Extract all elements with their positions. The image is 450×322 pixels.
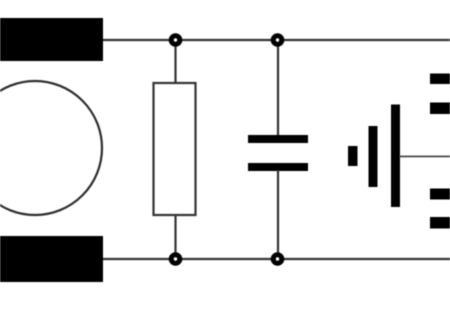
node D (bottom-right junction) <box>271 252 285 266</box>
node C (bottom-left junction) <box>169 252 183 266</box>
wire earpiece lead <box>399 155 450 157</box>
winding bar W4 (clipped at right edge) <box>430 217 450 229</box>
wire capacitor bottom lead <box>277 170 279 259</box>
resistor R1 <box>154 83 196 215</box>
earpiece LS1 middle bar <box>369 126 378 187</box>
wire bottom rail <box>103 258 450 260</box>
terminal block TB1 (antenna, top-left) <box>0 18 103 61</box>
earpiece LS1 tall bar <box>391 105 400 208</box>
capacitor C1 top plate <box>248 135 308 143</box>
winding bar W3 (clipped at right edge) <box>430 189 450 200</box>
winding bar W1 (clipped at right edge) <box>430 74 450 85</box>
wire resistor bottom lead <box>174 214 176 259</box>
capacitor C1 bottom plate <box>248 163 308 171</box>
wire capacitor top lead <box>277 40 279 136</box>
wire resistor top lead <box>174 40 176 84</box>
source G1 (circle, clipped at left edge) <box>0 81 102 215</box>
node B (top-right junction) <box>271 33 285 47</box>
terminal block TB2 (ground, bottom-left) <box>0 236 103 282</box>
wire top rail <box>103 39 450 41</box>
winding bar W2 (clipped at right edge) <box>430 103 450 115</box>
node A (top-left junction) <box>169 33 183 47</box>
earpiece LS1 short bar <box>348 146 358 166</box>
